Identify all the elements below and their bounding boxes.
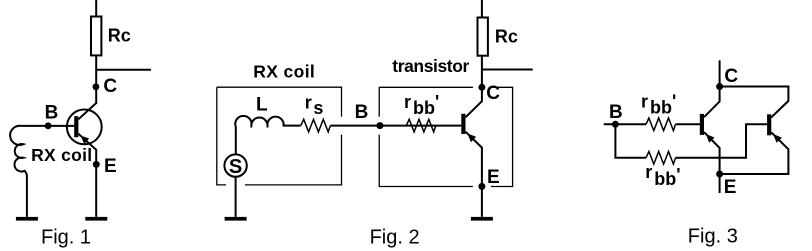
wire collector lead (Fig.1) [78, 103, 96, 119]
wire Q2 emitter to node E (Fig.3) [720, 132, 789, 174]
transistor Q1 emitter arrow (Fig.3) [706, 134, 715, 143]
inductor L (Fig.2) [235, 116, 301, 154]
svg-text:rbb': rbb' [641, 92, 676, 118]
transistor Q1 circle (Fig.1) [67, 110, 102, 145]
transistor emitter arrow (Fig.2) [467, 134, 476, 143]
svg-text:S: S [229, 156, 242, 178]
svg-text:RX coil: RX coil [253, 62, 314, 82]
svg-text:E: E [724, 177, 737, 198]
node C (Fig.2) [478, 84, 485, 91]
transistor base bar (Fig.2) [461, 114, 465, 134]
node B (Fig.3) [612, 121, 619, 128]
transistor Q1 base bar (Fig.1) [74, 116, 78, 137]
wire Rc to node C (Fig.1) [95, 55, 97, 104]
svg-text:C: C [724, 66, 738, 87]
wire output branch (Fig.1) [96, 69, 151, 71]
svg-text:C: C [486, 83, 500, 104]
node B (Fig.1) [45, 122, 52, 129]
transistor Q1 base bar (Fig.3) [700, 114, 704, 135]
wire rs to transistor base (Fig.2) [330, 125, 461, 127]
svg-text:Rc: Rc [495, 27, 518, 47]
ground under S (Fig.2) [225, 217, 247, 221]
ground right (Fig.1) [85, 217, 107, 221]
node E (Fig.1) [93, 161, 100, 168]
node E (Fig.2) [478, 183, 485, 190]
svg-text:RX coil: RX coil [31, 145, 92, 165]
svg-text:rbb': rbb' [645, 162, 680, 189]
svg-text:rbb': rbb' [404, 92, 439, 118]
node E (Fig.3) [716, 171, 723, 178]
resistor Rc (Fig.2) [478, 18, 488, 56]
node C (Fig.1) [93, 83, 100, 90]
node C (Fig.3) [716, 83, 723, 90]
resistor r bb' top (Fig.3) [646, 118, 676, 131]
svg-text:Fig. 2: Fig. 2 [370, 226, 420, 248]
box RX coil model (Fig.2) [217, 87, 342, 185]
svg-text:Fig. 1: Fig. 1 [41, 226, 91, 248]
wire C to Q2 collector (Fig.3) [720, 87, 789, 118]
svg-text:E: E [104, 156, 117, 177]
svg-text:E: E [487, 167, 500, 188]
inductor RX coil (Fig.1) [10, 126, 27, 217]
transistor Q2 emitter arrow (Fig.3) [773, 134, 782, 143]
transistor Q1 emitter arrow (Fig.1) [80, 136, 89, 145]
svg-text:B: B [355, 102, 369, 123]
wire base lead (Fig.1) [22, 125, 75, 127]
svg-text:C: C [103, 76, 117, 97]
wire output branch (Fig.2) [482, 69, 533, 71]
wire Q1 collector and C stub (Fig.3) [704, 60, 720, 117]
wire Vcc supply to Rc (Fig.1) [95, 0, 97, 17]
box transistor model (Fig.2) [379, 87, 512, 186]
source S circle (Fig.2) [224, 154, 246, 176]
node B (Fig.2) [376, 122, 383, 129]
svg-text:B: B [609, 102, 623, 123]
wire Vcc supply to Rc (Fig.2) [481, 0, 483, 18]
ground left (Fig.1) [16, 217, 38, 221]
svg-text:transistor: transistor [392, 56, 469, 76]
ground under E (Fig.2) [471, 217, 493, 221]
wire B down to bottom branch (Fig.3) [615, 124, 646, 158]
wire bottom branch to Q2 base (Fig.3) [676, 124, 768, 158]
svg-text:Rc: Rc [108, 26, 131, 46]
resistor r bb' (Fig.2) [406, 119, 436, 132]
wire Q1 emitter to E stub (Fig.3) [704, 132, 720, 193]
wire emitter to ground (Fig.2) [466, 132, 482, 217]
resistor rs (Fig.2) [301, 119, 331, 132]
resistor r bb' bottom (Fig.3) [646, 152, 676, 165]
transistor Q2 base bar (Fig.3) [767, 114, 771, 135]
wire emitter lead (Fig.1) [78, 134, 96, 217]
svg-text:Fig. 3: Fig. 3 [688, 225, 738, 247]
wire top resistor to Q1 base (Fig.3) [676, 123, 700, 125]
svg-text:B: B [45, 103, 59, 124]
wire S to ground (Fig.2) [235, 177, 237, 217]
svg-text:rs: rs [305, 93, 324, 119]
svg-text:L: L [256, 95, 268, 116]
resistor Rc (Fig.1) [91, 17, 101, 56]
wire Rc to collector (Fig.2) [466, 56, 482, 118]
wire B stub (Fig.3) [604, 123, 646, 125]
